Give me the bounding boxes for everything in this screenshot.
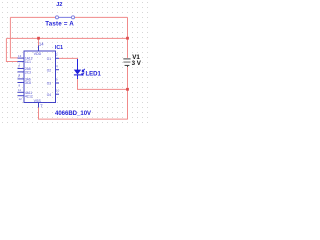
svg-text:1C1: 1C1 [25, 60, 31, 64]
LED1 anode lead [77, 59, 79, 70]
wire left outer rail to IC1 pin [6, 38, 17, 61]
svg-text:2C3: 2C3 [25, 71, 31, 75]
svg-text:4C12: 4C12 [25, 94, 33, 98]
pin 4A left stub group4 a [18, 91, 25, 93]
pin 1A left stub group1 a [18, 57, 25, 59]
pin 7 VSS bottom pin [38, 103, 40, 108]
svg-text:3C8: 3C8 [25, 81, 31, 85]
svg-text:O2: O2 [47, 68, 51, 72]
wire IC1 output to LED1 [59, 58, 78, 60]
LED1 light arrow 1 [82, 69, 85, 72]
pin 14 VDD top pin [38, 46, 40, 52]
svg-text:Taste = A: Taste = A [45, 20, 74, 27]
pin 3A left stub group3 a [18, 78, 25, 80]
svg-text:VDD: VDD [34, 52, 42, 56]
wire bottom return from IC1 pin 7 [39, 108, 128, 120]
svg-text:O4: O4 [47, 93, 51, 97]
jumper J2 body [55, 16, 75, 18]
pin 3C left stub group3 b [18, 82, 25, 84]
pin O4 right stub [56, 93, 60, 95]
battery V1 minus stub [127, 65, 129, 67]
pin 2C left stub group2 b [18, 71, 25, 73]
svg-text:O3: O3 [47, 82, 51, 86]
wire battery bottom lead [127, 67, 129, 120]
LED1 cathode lead [77, 75, 79, 79]
svg-text:VSS: VSS [34, 99, 42, 103]
pin 2A left stub group2 a [18, 68, 25, 70]
svg-text:14: 14 [39, 41, 44, 46]
wire main horizontal VDD net [6, 37, 127, 39]
wire top net right segment from J2 [75, 16, 128, 18]
svg-text:13: 13 [18, 54, 22, 58]
battery V1 plus plate [123, 58, 130, 60]
LED1 light arrow 2 [82, 73, 85, 76]
pin O2 right stub [56, 69, 60, 71]
svg-text:IC1: IC1 [55, 45, 63, 51]
pin 4C left stub group4 b [18, 95, 25, 97]
node junction at LED return / battery minus [126, 88, 129, 91]
pin O3 right stub [56, 82, 60, 84]
node junction at battery plus [126, 37, 129, 40]
IC U1 body (IC1 4066BD) [24, 51, 56, 103]
pin 1C left stub group1 b [18, 61, 25, 63]
wire top net left segment to J2 [10, 16, 55, 18]
wire left inner rail from J2 to IC1 pin [10, 17, 17, 58]
wire IC1 pin 14 drop [38, 38, 40, 46]
LED1 cathode bar [74, 74, 81, 76]
svg-text:LED1: LED1 [86, 72, 102, 78]
svg-text:3 V: 3 V [132, 60, 142, 67]
svg-text:J2: J2 [56, 2, 62, 8]
wire LED1 cathode down and right [78, 79, 128, 90]
svg-text:O1: O1 [47, 57, 51, 61]
svg-text:4066BD_10V: 4066BD_10V [55, 111, 91, 117]
LED1 triangle [74, 70, 81, 75]
wire battery top branch [127, 17, 129, 58]
battery V1 middle plate [123, 61, 130, 63]
svg-text:11: 11 [18, 88, 21, 92]
svg-text:10: 10 [56, 89, 60, 93]
svg-text:12: 12 [19, 97, 23, 101]
battery V1 minus plate [125, 64, 130, 66]
pin O1 right stub [56, 57, 60, 59]
jumper J2 terminal right [72, 16, 75, 19]
node junction at IC1 pin14 / VDD net [37, 37, 40, 40]
jumper J2 terminal left [56, 16, 59, 19]
